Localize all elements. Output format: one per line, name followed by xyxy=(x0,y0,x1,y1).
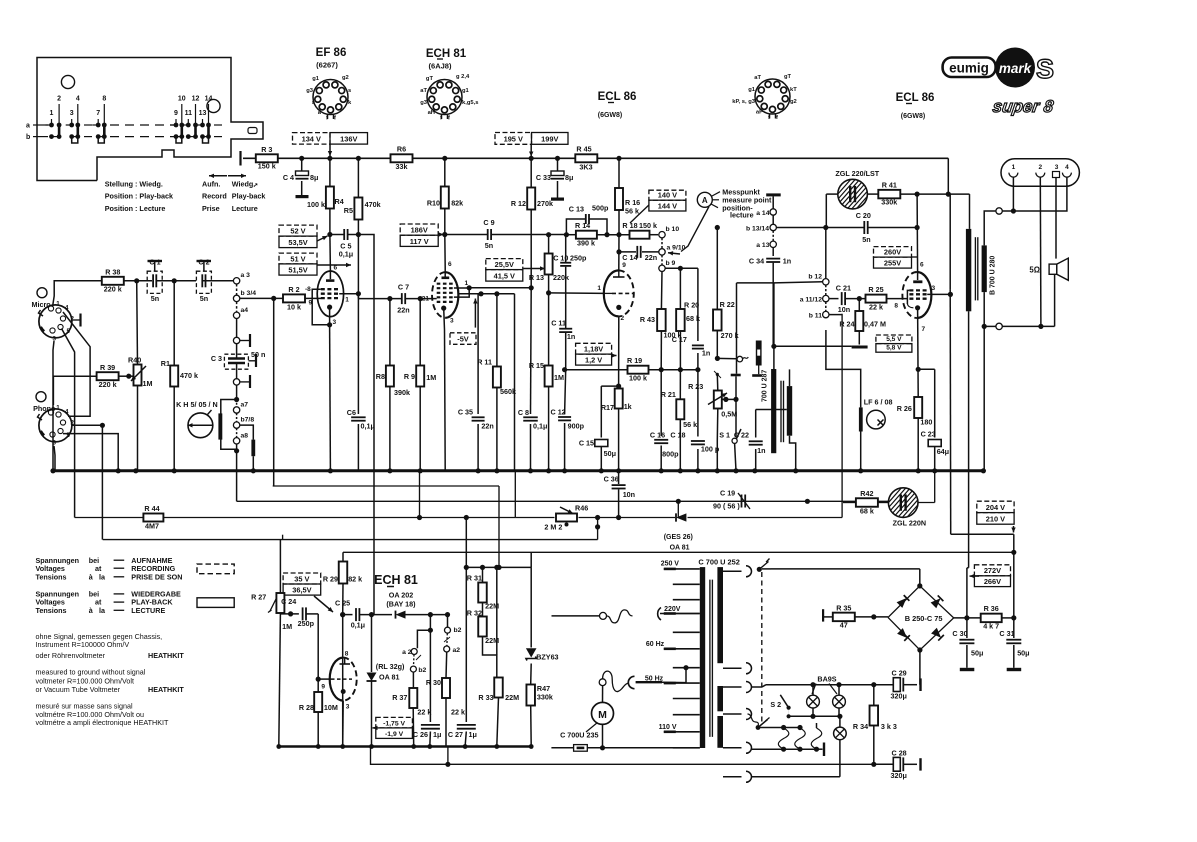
svg-text:HEATHKIT: HEATHKIT xyxy=(148,651,184,660)
svg-text:2 M 2: 2 M 2 xyxy=(544,523,562,532)
wire R20 R21 column xyxy=(678,268,683,473)
secondary hooks xyxy=(723,566,752,783)
svg-text:OA 81: OA 81 xyxy=(670,545,690,552)
selector row1 line xyxy=(758,725,803,730)
resistor R6 xyxy=(391,154,413,162)
svg-text:204 V: 204 V xyxy=(986,503,1005,512)
messpunkt circle A xyxy=(697,192,712,207)
svg-text:0,5M: 0,5M xyxy=(721,410,737,419)
label LF6/08 xyxy=(864,398,893,407)
svg-text:330k: 330k xyxy=(537,693,553,702)
svg-text:ECL 86: ECL 86 xyxy=(896,92,935,104)
contact a13 xyxy=(756,241,776,249)
wire phono pin5 to bus xyxy=(63,434,121,474)
wire B+ corner down xyxy=(947,158,949,194)
svg-text:470k: 470k xyxy=(365,200,381,209)
svg-text:C 23: C 23 xyxy=(921,429,936,438)
resistor R5 xyxy=(354,198,362,220)
lamp verticals xyxy=(813,685,839,717)
R35 line xyxy=(823,609,888,621)
arrow -1.75V xyxy=(373,726,378,730)
contact row labels a b xyxy=(26,123,30,142)
svg-text:5n: 5n xyxy=(485,241,493,250)
svg-text:1k: 1k xyxy=(624,402,632,411)
capacitor C11 xyxy=(559,329,572,332)
wire phono pin2 line xyxy=(72,423,105,428)
potentiometer R27 xyxy=(268,593,284,613)
junction C9 left xyxy=(442,232,447,237)
label B700U280 xyxy=(990,256,997,295)
svg-text:g1: g1 xyxy=(462,88,470,94)
capacitor C3 xyxy=(224,344,256,379)
svg-text:9: 9 xyxy=(622,262,626,269)
contact a11/12 xyxy=(800,295,829,303)
svg-text:R 26: R 26 xyxy=(897,404,912,413)
svg-text:(BAY 18): (BAY 18) xyxy=(386,600,416,609)
220V plug xyxy=(600,608,700,623)
svg-text:f: f xyxy=(326,116,328,122)
svg-text:ECL 86: ECL 86 xyxy=(598,91,637,103)
resistor R17 xyxy=(615,389,623,409)
legend paragraph french xyxy=(36,702,169,728)
bottom plug contact xyxy=(984,323,1054,329)
svg-text:1M: 1M xyxy=(282,622,292,631)
bridge top wire xyxy=(917,569,922,589)
wire R37 column xyxy=(411,688,416,749)
arrow 52V to node xyxy=(317,236,328,241)
mains fuse line xyxy=(551,745,699,752)
svg-text:(6GW8): (6GW8) xyxy=(598,112,623,119)
contact a2 chain1 xyxy=(402,649,417,657)
svg-text:aT: aT xyxy=(420,88,427,94)
transformer 700U287 core xyxy=(781,381,784,443)
BA9S lamps xyxy=(807,695,846,708)
selector loops xyxy=(778,723,821,749)
svg-text:(6267): (6267) xyxy=(316,61,338,70)
svg-text:s: s xyxy=(312,100,315,106)
label BA9S xyxy=(812,675,837,695)
svg-text:11: 11 xyxy=(185,110,193,117)
wire C15 branch xyxy=(599,384,622,474)
Phono connector xyxy=(36,392,72,442)
svg-text:b2: b2 xyxy=(418,667,426,674)
wire 287 secondary leads xyxy=(790,369,799,473)
capacitor C9 xyxy=(488,229,491,240)
wire C26 column xyxy=(427,630,432,749)
wire C33 column xyxy=(557,158,559,197)
svg-text:g2: g2 xyxy=(790,99,797,105)
voltage box 25.5V/41.5V xyxy=(486,259,523,282)
svg-text:260V: 260V xyxy=(884,248,901,257)
arrow 25.5V xyxy=(524,266,546,270)
ECL86 socket pin labels xyxy=(732,74,797,121)
wire lamp line xyxy=(826,194,879,227)
svg-text:C 22: C 22 xyxy=(734,431,749,440)
wire R19 plate chain xyxy=(562,367,701,372)
svg-text:8μ: 8μ xyxy=(310,173,318,182)
svg-text:C 4: C 4 xyxy=(283,173,294,182)
resistor R4 xyxy=(326,187,334,209)
wire OA81 column xyxy=(369,615,374,749)
wire plate supply column x917 xyxy=(916,194,919,272)
ECH81 V2 electrodes xyxy=(432,268,454,311)
wire line B xyxy=(237,500,889,502)
svg-text:5n: 5n xyxy=(151,294,159,303)
resistor R41 xyxy=(878,190,900,199)
svg-text:22 k: 22 k xyxy=(451,708,465,717)
svg-text:R 2: R 2 xyxy=(288,285,299,294)
svg-text:aH: aH xyxy=(428,110,435,116)
messpunkt text xyxy=(722,187,772,219)
svg-text:(GES 26): (GES 26) xyxy=(664,534,693,541)
EF86 socket xyxy=(313,80,348,120)
Micro pin numbers xyxy=(53,301,75,343)
svg-text:PRISE DE SON: PRISE DE SON xyxy=(131,572,182,581)
capacitor C24 xyxy=(303,607,306,620)
svg-text:a: a xyxy=(26,123,30,130)
contact b2 chain2 xyxy=(445,627,462,634)
wire a2 b2 chain 1 xyxy=(417,615,433,649)
wire R4 column xyxy=(329,158,332,271)
capacitor C34 xyxy=(766,259,780,262)
erase head circle xyxy=(867,410,886,429)
wire lineB to R44 line link xyxy=(676,499,681,518)
logo letter S xyxy=(1036,54,1054,84)
legend recording rows xyxy=(36,556,183,582)
eumig logo xyxy=(943,58,996,78)
wire EF86 plate to R5 column xyxy=(339,291,361,299)
wire C5 xyxy=(330,234,359,236)
switch S1 xyxy=(731,374,741,474)
svg-text:68 k: 68 k xyxy=(860,507,874,516)
messpunkt pointer lines xyxy=(681,192,720,252)
svg-text:3K3: 3K3 xyxy=(579,163,592,172)
svg-text:Lecture: Lecture xyxy=(232,204,258,213)
svg-text:250 V: 250 V xyxy=(661,561,680,568)
wire V5 plate top xyxy=(343,658,345,747)
svg-text:C 24: C 24 xyxy=(281,597,296,606)
wire C29 left lead xyxy=(874,684,894,686)
svg-text:53,5V: 53,5V xyxy=(288,238,307,247)
svg-text:f: f xyxy=(448,116,450,122)
wire primary bottom long xyxy=(968,311,970,568)
DIN speaker connector xyxy=(1001,159,1079,187)
svg-text:C 17: C 17 xyxy=(672,335,687,344)
label ZGL220/LST xyxy=(835,169,879,178)
svg-text:1n: 1n xyxy=(567,332,575,341)
contact b13/14 xyxy=(746,224,776,232)
resistor R19 xyxy=(628,366,649,374)
wire R27 column xyxy=(276,540,281,749)
svg-text:1M: 1M xyxy=(426,373,436,382)
wire C22 line xyxy=(752,410,787,474)
wire R33 column xyxy=(494,567,499,748)
svg-text:7: 7 xyxy=(922,326,926,333)
contact b3/4 xyxy=(233,290,256,302)
C2 top plate xyxy=(197,261,212,271)
resistor R20 xyxy=(676,309,685,331)
voltage box 5.5V/5.8V xyxy=(876,335,912,352)
svg-text:3: 3 xyxy=(346,704,350,711)
Micro connector xyxy=(37,288,72,338)
wire DIN pin4 down xyxy=(1013,177,1067,211)
junction R4 top xyxy=(327,156,332,161)
wire micro pin3 to bus xyxy=(50,341,55,473)
svg-text:C 12: C 12 xyxy=(551,408,566,417)
resistor R35 xyxy=(833,613,855,622)
contact a2 chain2 xyxy=(444,646,461,654)
svg-text:R 45: R 45 xyxy=(576,145,591,154)
voltage box 51V/51.5V xyxy=(279,253,317,275)
record jack bar xyxy=(752,341,762,377)
wire EF86 cathode xyxy=(327,307,333,473)
playback head bar xyxy=(240,425,256,473)
wire 272V column xyxy=(967,568,969,618)
svg-text:250p: 250p xyxy=(570,254,587,263)
contact above C3 xyxy=(233,334,250,347)
ECH81 socket pin labels xyxy=(420,74,478,122)
resistor R30 xyxy=(442,678,450,698)
wire C7 coupling xyxy=(358,298,432,300)
resistor R26 xyxy=(914,397,922,418)
svg-text:R 29: R 29 xyxy=(323,575,338,584)
R34 column xyxy=(871,685,876,767)
Phono pin numbers xyxy=(53,405,75,447)
svg-text:C 28: C 28 xyxy=(892,748,907,757)
voltage box -1.75V xyxy=(376,717,413,738)
voltage box 204V/210V xyxy=(977,501,1014,524)
svg-text:Micro: Micro xyxy=(32,300,52,309)
svg-text:41,5 V: 41,5 V xyxy=(494,272,515,281)
wire BZY column xyxy=(529,567,534,748)
svg-text:LF 6 / 08: LF 6 / 08 xyxy=(864,398,893,407)
capacitor C26 xyxy=(421,725,440,729)
svg-text:b 3/4: b 3/4 xyxy=(241,290,257,297)
transformer B700U280 secondary bar xyxy=(982,245,987,292)
svg-text:60 Hz: 60 Hz xyxy=(646,641,665,648)
svg-text:266V: 266V xyxy=(984,577,1001,586)
svg-text:g1: g1 xyxy=(312,76,320,82)
svg-text:1: 1 xyxy=(56,301,60,308)
B+ top rail wire xyxy=(243,157,948,159)
wire R44 line xyxy=(75,314,843,518)
svg-text:0,1μ: 0,1μ xyxy=(339,250,353,259)
svg-text:ECH 81: ECH 81 xyxy=(426,48,467,60)
svg-text:gT: gT xyxy=(784,74,792,80)
resistor R12 xyxy=(527,188,535,210)
svg-text:117 V: 117 V xyxy=(410,237,429,246)
svg-text:R 11: R 11 xyxy=(477,358,492,367)
junction C4 node xyxy=(299,156,304,161)
svg-text:EF 86: EF 86 xyxy=(316,47,347,59)
svg-text:82k: 82k xyxy=(451,199,463,208)
legend dashed sample box xyxy=(197,564,234,574)
svg-text:Play-back: Play-back xyxy=(232,192,266,201)
svg-text:R 38: R 38 xyxy=(105,268,120,277)
svg-text:b 11: b 11 xyxy=(809,313,822,320)
svg-text:C 30: C 30 xyxy=(952,629,967,638)
svg-text:R 12: R 12 xyxy=(511,199,526,208)
capacitor C30 xyxy=(959,618,974,671)
wire micro pin5 to R44 line xyxy=(62,329,75,518)
svg-text:1,2 V: 1,2 V xyxy=(585,356,602,365)
capacitor C6 xyxy=(347,408,375,431)
record head KH5/05/N bar xyxy=(218,413,222,439)
resistor R14 xyxy=(576,231,597,239)
label Phono xyxy=(33,404,56,413)
svg-text:R17: R17 xyxy=(601,403,614,412)
capacitor C29 xyxy=(893,678,920,692)
wire secondary top lead xyxy=(984,211,996,245)
ground plate C33 xyxy=(551,198,564,201)
capacitor C27 body xyxy=(457,725,476,729)
capacitor C20 xyxy=(864,221,867,234)
EF86 socket pin labels xyxy=(306,75,352,122)
label KH5/05/N xyxy=(176,400,218,409)
svg-text:aP: aP xyxy=(756,110,763,116)
tube ECH81 V5 oscillator xyxy=(330,658,357,701)
svg-text:272V: 272V xyxy=(984,566,1001,575)
svg-text:s: s xyxy=(348,88,351,94)
wire b13/14 line xyxy=(776,225,919,230)
svg-text:1μ: 1μ xyxy=(469,730,477,739)
svg-text:C 36: C 36 xyxy=(604,475,619,484)
screw hole right xyxy=(207,99,220,112)
svg-text:9: 9 xyxy=(174,110,178,117)
wire a14 b13/14 xyxy=(772,215,774,241)
lamp bottom line xyxy=(789,714,843,719)
capacitor C25 xyxy=(356,608,359,621)
svg-text:M: M xyxy=(598,709,607,721)
bottom bus wire xyxy=(279,745,531,748)
arrow 186V xyxy=(439,232,444,236)
bridge diodes xyxy=(897,595,944,641)
tube ECL86 V3 triode xyxy=(604,270,634,316)
wire B+ plate column x950 xyxy=(949,194,952,534)
ECH81 socket title xyxy=(426,48,467,71)
wire grid R13 R15 column xyxy=(546,232,604,473)
wire C17 C18 column xyxy=(695,353,700,473)
resistor R22 xyxy=(713,310,722,331)
capacitor C10 xyxy=(560,263,571,266)
wire a13 to C34 xyxy=(772,248,774,257)
svg-text:1: 1 xyxy=(50,110,54,117)
capacitor C15 xyxy=(595,440,608,447)
svg-text:S 1: S 1 xyxy=(719,431,730,440)
messpunkt arrow at a9/10 xyxy=(668,251,680,255)
svg-text:C 7: C 7 xyxy=(398,283,409,292)
wire V5 cathode xyxy=(342,701,345,747)
svg-text:5: 5 xyxy=(67,328,71,335)
contact row dashed lines xyxy=(33,125,222,137)
svg-text:C 29: C 29 xyxy=(892,669,907,678)
svg-text:82 k: 82 k xyxy=(348,575,362,584)
wire C4 column xyxy=(301,158,303,195)
wire LF head bottom to bus xyxy=(858,432,863,474)
svg-text:10 k: 10 k xyxy=(287,303,301,312)
svg-text:b 13/14: b 13/14 xyxy=(746,225,769,232)
wire ECH81 aux xyxy=(458,291,515,296)
svg-text:52 V: 52 V xyxy=(290,227,305,236)
svg-text:R 21: R 21 xyxy=(661,390,676,399)
wire a11/12 to C21 xyxy=(829,298,839,300)
label 5 ohm xyxy=(1029,265,1040,274)
contact a4 xyxy=(233,307,248,318)
wire R30 column xyxy=(445,698,447,747)
wire phono column x102 xyxy=(101,425,103,539)
wire R8 column xyxy=(387,299,392,474)
wire cathode V3 xyxy=(616,316,621,473)
svg-text:C 700 U 252: C 700 U 252 xyxy=(698,558,740,567)
svg-text:50μ: 50μ xyxy=(971,649,983,658)
svg-text:150 k: 150 k xyxy=(639,221,657,230)
mark logo circle xyxy=(995,48,1035,88)
capacitor C36 body xyxy=(612,485,626,488)
svg-text:320μ: 320μ xyxy=(891,771,907,780)
capacitor C31 xyxy=(1006,618,1021,671)
svg-text:Record: Record xyxy=(202,192,227,201)
svg-text:C6: C6 xyxy=(347,408,356,417)
svg-text:f: f xyxy=(334,116,336,122)
svg-text:3: 3 xyxy=(932,285,936,292)
svg-text:-5V: -5V xyxy=(457,335,469,344)
rail left terminal xyxy=(239,151,241,166)
resistor R13 xyxy=(545,254,553,275)
mode text aufn xyxy=(202,180,265,213)
ECH81 V2 cathode wire xyxy=(444,308,446,471)
bridge bottom wire xyxy=(917,647,922,684)
svg-text:R40: R40 xyxy=(128,356,141,365)
svg-text:22n: 22n xyxy=(481,422,493,431)
svg-text:2: 2 xyxy=(621,315,625,322)
svg-text:1: 1 xyxy=(597,285,601,292)
arrow 134V to rail xyxy=(328,144,332,156)
lamp3 xyxy=(834,716,847,777)
wire a2 b2 chain 2 xyxy=(447,615,449,627)
voltage box 195V/199V xyxy=(495,133,568,145)
wire record line xyxy=(737,282,823,374)
svg-text:R 43: R 43 xyxy=(640,315,655,324)
EF86 socket title xyxy=(316,47,347,70)
svg-text:R 3: R 3 xyxy=(261,145,272,154)
wire R31 R32 column xyxy=(483,567,497,677)
svg-text:8: 8 xyxy=(894,303,898,310)
contact b9 xyxy=(659,260,676,271)
svg-text:super 8: super 8 xyxy=(991,97,1055,116)
EF86 V1 grid loop xyxy=(312,289,329,325)
svg-text:56 k: 56 k xyxy=(683,420,697,429)
svg-text:140 V: 140 V xyxy=(658,191,677,200)
svg-text:lecture: lecture xyxy=(730,211,754,220)
svg-text:C 27: C 27 xyxy=(448,730,463,739)
svg-text:la: la xyxy=(99,572,106,581)
svg-text:R6: R6 xyxy=(397,145,406,154)
svg-text:800p: 800p xyxy=(662,450,679,459)
wire R39 xyxy=(53,374,134,405)
label ZGL220N xyxy=(893,519,926,528)
ground plate C4 xyxy=(296,195,309,198)
svg-text:25,5V: 25,5V xyxy=(495,260,514,269)
resistor R43 xyxy=(657,309,666,331)
contact column dashes xyxy=(661,238,663,265)
ECH81 V2 pin bracket xyxy=(454,285,472,297)
svg-text:a 2: a 2 xyxy=(402,649,412,656)
svg-text:9: 9 xyxy=(321,684,325,691)
wire oscillator feed column xyxy=(358,235,374,615)
ECH81 V2 pin labels xyxy=(422,261,469,325)
diode GES26 OA81 xyxy=(676,513,686,521)
contact b12 xyxy=(808,274,829,285)
